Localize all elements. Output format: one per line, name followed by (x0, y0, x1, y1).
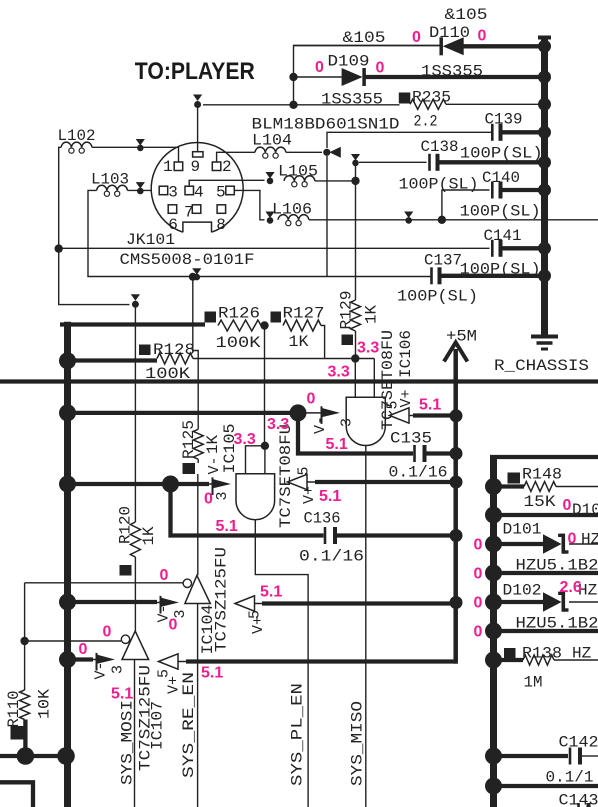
svg-text:1K: 1K (363, 305, 381, 324)
svg-text:V+: V+ (166, 676, 183, 694)
wire C136 to 5M stem (337, 533, 456, 537)
inductor L103 (97, 185, 128, 190)
node rung4 (485, 565, 502, 582)
svg-text:R128: R128 (153, 341, 195, 359)
wire D109 to bus (364, 75, 545, 79)
node D102 rung (485, 594, 502, 611)
wire R235 left (294, 104, 400, 106)
svg-text:100K: 100K (216, 334, 261, 352)
svg-text:R_CHASSIS: R_CHASSIS (494, 357, 589, 375)
node C137 bus (538, 269, 551, 282)
capacitor C141 (491, 240, 494, 257)
wire R128 to IC106 inputs (193, 358, 374, 360)
wire 5.1 bend to C135 (298, 413, 413, 454)
wire D109 anode (294, 76, 342, 78)
ladder bus vertical (490, 457, 497, 807)
wire thick to R128 (68, 358, 158, 362)
JK101 pin 7 squares (168, 205, 177, 214)
resistor R148 (508, 473, 521, 484)
wire IC106 input left (354, 359, 356, 398)
resistor R110 (20, 690, 30, 720)
svg-text:100P(SL): 100P(SL) (460, 145, 543, 163)
wire R120 down to IC107 output (134, 557, 136, 631)
wire D110 cathode to bus (462, 44, 545, 48)
wire D102 right (569, 601, 598, 603)
resistor R128 (139, 345, 151, 356)
wire C137 to bus (442, 274, 545, 278)
svg-text:JK101: JK101 (126, 231, 175, 249)
JK101 pin 5 (226, 186, 235, 195)
wire IC107 pin5 to stem corner (178, 661, 188, 663)
svg-text:0: 0 (307, 391, 316, 408)
svg-text:&105: &105 (445, 6, 488, 24)
svg-text:R110: R110 (5, 691, 23, 728)
svg-text:C136: C136 (304, 510, 341, 528)
power bus right vertical (top) (541, 38, 548, 337)
node C135 stem (450, 447, 463, 460)
svg-text:3: 3 (339, 418, 356, 427)
wire IC105 input right (264, 446, 266, 474)
svg-text:HZ: HZ (581, 531, 598, 549)
svg-text:R138: R138 (522, 645, 562, 663)
wire IC104 enable line (25, 582, 184, 584)
node R110 bottom (17, 747, 35, 765)
inductor L105 (284, 176, 315, 181)
wire bus to IC106 pin3 (68, 411, 299, 415)
wire IC105 pin3 segment (171, 482, 210, 486)
wire L104 to bowtie (286, 151, 322, 153)
node C142 rung (485, 748, 502, 765)
wire IC107 enable line (25, 640, 121, 642)
wire D101 right (569, 543, 598, 545)
svg-text:5.1: 5.1 (326, 436, 348, 453)
wire bus to IC107 pin3 (68, 657, 94, 661)
diode D101 zener (543, 534, 562, 553)
capacitor C142 (569, 748, 572, 765)
JK101 pin 9 (193, 152, 203, 157)
svg-text:0.1/16: 0.1/16 (389, 464, 448, 482)
JK101 pin 3 (159, 186, 168, 195)
triangle IC107 pin5 (159, 654, 179, 669)
node IC106 pin5 stem (450, 409, 463, 422)
wire bus to IC104 pin3 (68, 600, 158, 604)
left power bus vertical (64, 322, 71, 807)
wire C135 to 5M stem (427, 451, 457, 455)
capacitor C135 (413, 445, 416, 462)
svg-text:100P(SL): 100P(SL) (460, 261, 541, 279)
wire JK101 pin3 to L103 (128, 189, 152, 191)
bowtie MOSI tap (192, 268, 201, 275)
svg-text:2.2: 2.2 (414, 113, 438, 131)
JK101 pin 4 (185, 186, 194, 195)
svg-text:HZ: HZ (572, 645, 592, 663)
wire C138 tap down R129 (355, 165, 357, 300)
node IC107 pin3 feed (59, 651, 76, 668)
svg-text:L102: L102 (58, 127, 96, 145)
svg-text:IC106: IC106 (397, 330, 415, 378)
node C139 bus (538, 126, 551, 139)
node C141 tap (55, 244, 63, 252)
svg-text:3.3: 3.3 (328, 364, 350, 381)
wire R138 right (554, 659, 598, 661)
wire bowtie down to R128 jog (193, 277, 198, 430)
svg-text:L104: L104 (252, 132, 292, 150)
triangle IC106 pin5 (390, 408, 410, 423)
svg-text:8: 8 (216, 216, 226, 234)
wire R235 to bus (446, 103, 545, 105)
svg-text:9: 9 (191, 158, 201, 176)
wire IC107 input SYS_MOSI (134, 660, 136, 807)
svg-text:R129: R129 (338, 291, 356, 330)
resistor R126 (205, 312, 217, 323)
wire C140 left down (442, 190, 490, 220)
JK101 pin 1 (174, 162, 183, 171)
main horizontal 3.3V line (0, 379, 598, 383)
svg-text:D109: D109 (328, 53, 370, 71)
svg-text:L106: L106 (272, 201, 312, 219)
triangle buffer IC107 (122, 631, 149, 660)
svg-text:5.1: 5.1 (260, 584, 282, 601)
wire rung R138 (494, 658, 524, 662)
svg-text:R148: R148 (522, 466, 562, 484)
wire pin9 net to D109 column (203, 104, 294, 106)
bowtie pin3 (136, 182, 145, 189)
node R235 left junction (289, 101, 297, 109)
wire thick to R126 (60, 322, 205, 326)
svg-text:C143: C143 (559, 792, 598, 807)
svg-text:C138: C138 (421, 138, 459, 156)
wire L103 left down to C137 line (88, 190, 432, 276)
inductor L106 (278, 215, 309, 220)
wire C141 left long (59, 247, 490, 249)
svg-text:R127: R127 (283, 305, 325, 323)
svg-text:3.3: 3.3 (357, 340, 379, 357)
svg-text:TC7SET08FU: TC7SET08FU (277, 424, 295, 528)
bowtie pin5 left (265, 212, 274, 219)
svg-text:V+: V+ (250, 616, 267, 634)
svg-text:3.3: 3.3 (234, 431, 256, 448)
svg-text:TC7SZ125FU: TC7SZ125FU (213, 547, 231, 652)
svg-text:1K: 1K (289, 333, 309, 351)
svg-text:R120: R120 (117, 506, 135, 544)
node C143 rung (485, 778, 502, 795)
bowtie L104 horizontal (323, 149, 330, 156)
svg-text:L105: L105 (278, 163, 318, 181)
wire L106 right full width (309, 219, 598, 221)
wire enable corner down R110 (24, 583, 26, 690)
node rung6 (485, 623, 502, 640)
wire C141 to bus (503, 246, 545, 250)
node IC105 input junction (261, 442, 269, 450)
svg-text:3: 3 (168, 183, 178, 201)
svg-text:0: 0 (169, 617, 178, 634)
svg-text:0: 0 (474, 624, 483, 641)
resistor R129 (351, 300, 361, 331)
svg-text:5: 5 (296, 466, 313, 475)
svg-text:V+: V+ (301, 486, 318, 504)
gate IC105 TC7SET08FU (236, 474, 275, 520)
node R138 rung (485, 652, 502, 669)
wire IC105 output SYS_PL_EN (255, 520, 308, 807)
wire JK101 pin4 to L105 (189, 180, 264, 186)
svg-text:HZU5.1B2: HZU5.1B2 (516, 615, 598, 633)
node R128 feed (59, 352, 76, 369)
svg-text:C140: C140 (482, 169, 520, 187)
svg-text:2: 2 (222, 158, 232, 176)
svg-text:V-: V- (206, 456, 223, 474)
wire rung4 thick (494, 571, 598, 575)
wire IC105 pin5 to stem (307, 481, 317, 483)
wire ladder top (490, 455, 598, 459)
connector JK101 shell (151, 142, 243, 232)
inductor L102 (61, 142, 92, 147)
svg-text:5.1: 5.1 (419, 397, 441, 414)
resistor R127 (271, 312, 282, 323)
node IC105 pin3 feed (59, 476, 76, 493)
svg-text:0: 0 (103, 624, 112, 641)
wire L105 right to R129 column (315, 180, 356, 182)
capacitor C137 (430, 267, 433, 284)
svg-text:2.6: 2.6 (560, 579, 582, 596)
svg-text:0: 0 (79, 641, 88, 658)
svg-text:1: 1 (163, 158, 173, 176)
wire IC106 output SYS_MISO (365, 446, 367, 807)
wire +5M stem (453, 349, 458, 661)
node IC106 input junction (351, 354, 359, 362)
wire R126 junction to IC105 inputs (264, 326, 266, 446)
node R110 enable2 (20, 637, 28, 645)
bubble IC107 enable (121, 635, 129, 643)
node IC105 pin5 stem (450, 476, 463, 489)
arrow IC106 pin3 (305, 412, 322, 414)
node IC105 pin3 corner (162, 476, 179, 493)
wire JK101 pin9 to bowtie (197, 105, 199, 152)
wire C138 to bus (440, 160, 545, 164)
wire IC106 pin5 to stem (409, 415, 415, 417)
JK101 pin 2 (212, 162, 221, 171)
wire JK101 pin5 to L106 (234, 190, 264, 219)
svg-text:+5M: +5M (446, 328, 477, 346)
wire 5.1 bend to C136 (171, 484, 324, 536)
svg-text:1K: 1K (204, 435, 222, 454)
bowtie pin5 right (404, 212, 413, 219)
svg-text:C137: C137 (424, 252, 462, 270)
capacitor C139 (491, 124, 494, 141)
wire C142 right (582, 755, 598, 757)
wire R148 right (556, 486, 598, 488)
arrow IC105 pin3 (196, 483, 213, 485)
svg-text:5.1: 5.1 (111, 686, 133, 703)
svg-text:TO:PLAYER: TO:PLAYER (135, 58, 255, 85)
node R235 bus (538, 98, 551, 111)
svg-text:0: 0 (474, 566, 483, 583)
wire bowtie to IC107 output column (134, 305, 136, 522)
svg-text:SYS_RE_EN: SYS_RE_EN (180, 672, 198, 778)
capacitor C143 partial (577, 803, 580, 807)
diode D109 (342, 68, 363, 86)
svg-text:0: 0 (474, 595, 483, 612)
wire C140 to bus (503, 188, 545, 192)
power +5M arrow (444, 343, 467, 362)
wire rung D102 (494, 600, 544, 604)
svg-text:100P(SL): 100P(SL) (399, 176, 479, 194)
svg-text:0: 0 (412, 29, 421, 46)
wire IC105 input left wrap (246, 446, 265, 474)
resistor R235 (399, 93, 411, 104)
svg-text:IC107: IC107 (149, 701, 167, 750)
node R126 R127 (260, 321, 268, 329)
wire rung2 thick (494, 513, 598, 517)
svg-text:0: 0 (474, 537, 483, 554)
svg-text:&105: &105 (343, 29, 386, 47)
svg-text:SYS_MISO: SYS_MISO (349, 701, 367, 786)
svg-text:D101: D101 (503, 521, 542, 539)
wire JK101 pin2 to L104 (217, 152, 255, 162)
svg-text:3: 3 (214, 491, 231, 500)
ground R_CHASSIS (531, 335, 558, 339)
arrow IC104 pin3 (144, 602, 161, 604)
svg-text:D102: D102 (503, 582, 542, 600)
svg-text:TC7SET08FU: TC7SET08FU (379, 330, 397, 430)
svg-text:1M: 1M (524, 674, 543, 692)
svg-text:5: 5 (216, 183, 226, 201)
svg-text:100P(SL): 100P(SL) (397, 288, 478, 306)
svg-text:100K: 100K (145, 365, 190, 383)
node C138 bus (538, 156, 551, 169)
wire C139 to bus (503, 130, 545, 134)
capacitor C138 (359, 161, 427, 163)
bubble IC104 enable (183, 579, 191, 587)
wire L102 left down (59, 147, 130, 304)
bowtie pin4 (265, 172, 274, 179)
wire rung C142 (494, 754, 569, 758)
node IC106 pin3 corner (290, 404, 307, 421)
svg-text:R125: R125 (180, 420, 198, 459)
bowtie pin1 (136, 139, 145, 146)
wire R129 bottom (355, 331, 357, 359)
wire JK101 pin1 to L102 (92, 147, 179, 162)
svg-text:0: 0 (478, 28, 487, 45)
svg-text:C141: C141 (484, 227, 522, 245)
node IC104 pin3 feed (59, 594, 76, 611)
svg-text:C135: C135 (390, 430, 432, 448)
wire bottom left thick (0, 754, 68, 758)
svg-text:L103: L103 (91, 171, 129, 189)
node L105 R129 (351, 177, 359, 185)
svg-text:0: 0 (160, 567, 169, 584)
bowtie pin1 lower (131, 294, 140, 301)
gate IC106 TC7SET08FU (346, 397, 385, 445)
svg-text:HZU5.1B2: HZU5.1B2 (516, 557, 598, 575)
wire R110 bottom thick (23, 720, 27, 757)
svg-text:100P(SL): 100P(SL) (460, 203, 541, 221)
node IC104 pin5 stem (450, 596, 463, 609)
wire IC104 pin5 to stem (255, 603, 265, 605)
svg-text:C142: C142 (559, 734, 598, 752)
node D109 bus (538, 71, 551, 84)
capacitor C140 (491, 182, 494, 199)
diode D110 (294, 45, 442, 47)
svg-text:4: 4 (194, 183, 204, 201)
svg-text:5.1: 5.1 (216, 518, 238, 535)
svg-text:0: 0 (563, 497, 572, 514)
capacitor C136 (324, 527, 327, 544)
node C141 bus (538, 242, 551, 255)
wire rung R148 (494, 484, 525, 488)
bowtie pin9 (193, 95, 202, 102)
node D110 bus (538, 40, 551, 53)
svg-text:5.1: 5.1 (319, 488, 341, 505)
bowtie C138 tap (351, 154, 360, 161)
resistor R138 (504, 648, 516, 659)
node bus bottom (57, 747, 75, 765)
node D109 anode junction (289, 73, 297, 81)
wire R125 to IC104 output (197, 459, 199, 463)
svg-text:1K: 1K (140, 526, 158, 545)
svg-text:0: 0 (568, 531, 577, 548)
node IC106 pin3 feed (59, 404, 76, 421)
svg-text:1SS355: 1SS355 (321, 91, 383, 109)
svg-text:V-: V- (93, 661, 110, 679)
svg-text:R235: R235 (412, 89, 451, 107)
wire rung D101 (494, 542, 544, 546)
node D101 rung (485, 536, 502, 553)
svg-text:CMS5008-0101F: CMS5008-0101F (120, 251, 255, 269)
resistor R125 (193, 429, 203, 459)
wire bus to IC105 pin3 (68, 482, 171, 486)
svg-text:0.1/1: 0.1/1 (546, 769, 594, 787)
svg-text:SYS_MOSI: SYS_MOSI (119, 700, 137, 785)
node C140 bus (538, 184, 551, 197)
svg-text:0: 0 (204, 491, 213, 508)
svg-text:D110: D110 (429, 24, 470, 42)
wire R127 right down (321, 326, 325, 359)
triangle IC104 pin5 (235, 596, 255, 611)
node C140 tap (438, 216, 446, 224)
triangle IC105 pin5 (288, 474, 308, 489)
svg-text:0: 0 (376, 60, 385, 77)
svg-text:V+: V+ (398, 389, 415, 407)
svg-text:1SS355: 1SS355 (421, 63, 483, 81)
wire IC104 input SYS_RE_EN (197, 604, 199, 807)
triangle buffer IC104 (185, 575, 210, 603)
svg-text:10K: 10K (36, 689, 54, 719)
diode D102 zener (543, 592, 562, 611)
wire IC106 input right wrap (373, 359, 375, 398)
svg-text:5.1: 5.1 (201, 665, 223, 682)
svg-text:SYS_PL_EN: SYS_PL_EN (289, 683, 307, 786)
wire rung6 thick (494, 629, 598, 633)
svg-text:R126: R126 (218, 305, 260, 323)
inductor L104 (255, 147, 286, 152)
wire C139 left column (327, 132, 492, 148)
svg-text:0: 0 (315, 59, 324, 76)
svg-text:D10: D10 (572, 501, 598, 519)
svg-text:3.3: 3.3 (267, 416, 289, 433)
wire bottom corner thick (0, 782, 33, 807)
svg-text:V-: V- (312, 416, 329, 434)
svg-text:0.1/16: 0.1/16 (299, 548, 364, 566)
svg-text:3: 3 (110, 665, 127, 674)
node C136 stem (450, 529, 463, 542)
svg-text:15K: 15K (524, 493, 556, 511)
resistor R120 (130, 522, 140, 557)
node rung2 (485, 507, 502, 524)
arrow IC107 pin3 (80, 659, 97, 661)
svg-text:C139: C139 (485, 111, 523, 129)
wire &105 net top (294, 46, 442, 105)
wire rung C143 thick (494, 784, 598, 788)
